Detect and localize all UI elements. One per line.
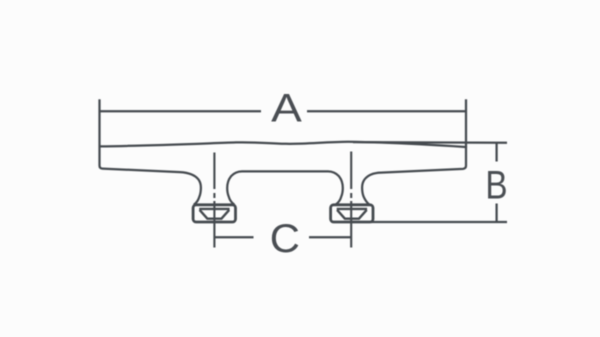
svg-text:C: C: [270, 216, 300, 261]
svg-text:B: B: [485, 163, 507, 208]
svg-text:A: A: [271, 87, 302, 131]
